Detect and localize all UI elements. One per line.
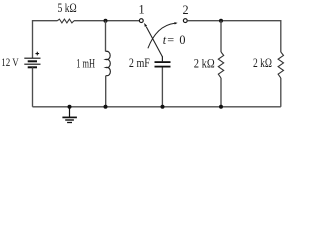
switch blade arrowhead at node 1 [144, 23, 147, 27]
svg-text:2 mF: 2 mF [129, 56, 150, 70]
resistor R3 2kOhm vertical zigzag [278, 52, 283, 78]
wire: capacitor bottom stub [161, 68, 163, 107]
ground symbol stem [69, 107, 71, 117]
node 1 terminal circle [139, 19, 143, 23]
junction dot bottom of capacitor [161, 105, 165, 109]
wire: resistor to node 1 [74, 20, 139, 22]
switch blade (pivot to node 1) [146, 27, 162, 57]
junction dot top of inductor [104, 19, 108, 23]
junction dot bottom of resistor R2 [219, 105, 223, 109]
battery V1 12V: plate long top [24, 57, 40, 59]
junction dot bottom of inductor [104, 105, 108, 109]
inductor L1 1mH coil [106, 51, 111, 75]
junction dot top of resistor R2 [219, 19, 223, 23]
wire: battery bottom to bottom-left corner [32, 67, 34, 107]
wire: inductor branch top [105, 21, 107, 52]
svg-text:5 kΩ: 5 kΩ [58, 1, 77, 15]
wire: resistor R3 branch top [280, 51, 282, 53]
switch arc arrowhead at node 2 [174, 22, 177, 24]
wire: capacitor top stub (switch pivot to plate) [161, 56, 163, 61]
battery V1: plate short thick [28, 60, 37, 62]
wire: resistor R2 branch top [220, 21, 222, 52]
node 2 terminal circle [183, 19, 187, 23]
capacitor C1 bottom plate [155, 66, 171, 68]
resistor R1 5kOhm horizontal zigzag [57, 19, 74, 23]
svg-text:1 mH: 1 mH [76, 56, 95, 70]
wire: top-left segment (battery top to node 1) [33, 21, 58, 59]
wire: node 2 to top-right corner and down [187, 21, 280, 52]
resistor R2 2kOhm vertical zigzag [218, 52, 223, 78]
switch motion arc toward node 2 [148, 23, 175, 48]
battery V1: plate long [24, 63, 40, 65]
svg-text:12 V: 12 V [1, 55, 19, 69]
wire: inductor branch bottom [105, 76, 107, 107]
capacitor C1 2mF top plate [155, 61, 171, 63]
svg-text:2 kΩ: 2 kΩ [194, 57, 215, 71]
ground bar 3 [67, 122, 72, 124]
battery V1: plate short thick bottom [28, 66, 37, 68]
battery plus sign [36, 52, 40, 56]
junction dot ground [68, 105, 72, 109]
svg-text:t=0: t=0 [163, 33, 186, 47]
svg-text:2: 2 [183, 3, 189, 17]
svg-text:2 kΩ: 2 kΩ [253, 56, 272, 70]
wire: resistor R2 branch bottom [220, 78, 222, 107]
ground bar 2 [65, 119, 74, 121]
ground bar 1 [62, 116, 77, 118]
svg-text:1: 1 [139, 3, 145, 17]
wire: bottom rail [33, 106, 281, 108]
wire: resistor R3 branch bottom [280, 78, 282, 107]
